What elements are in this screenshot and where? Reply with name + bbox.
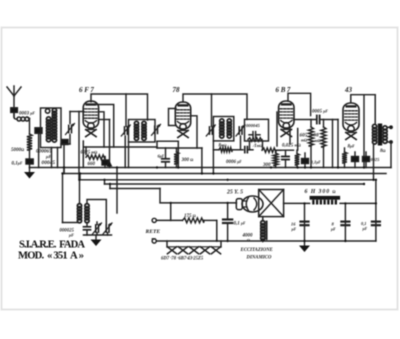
label 8uF filter — [330, 222, 336, 232]
svg-text:RETE: RETE — [145, 229, 161, 235]
wire T3 left leg — [212, 141, 214, 174]
terminal dot speaker+ — [387, 125, 393, 129]
wire C10 stem — [304, 153, 306, 168]
capacitor C1 0003uF antenna series cap — [11, 108, 18, 113]
terminal RETE b — [152, 239, 156, 243]
coil L1 antenna loading coil — [14, 112, 30, 121]
tube V2 78 IF amplifier — [175, 102, 190, 138]
wire screen feeder V4 — [363, 95, 365, 168]
label 98 — [314, 133, 321, 144]
svg-text:∕1mΩ: ∕1mΩ — [253, 143, 263, 149]
svg-text:0,1 μF: 0,1 μF — [234, 222, 246, 227]
label 16uF — [291, 222, 297, 232]
label 175ohm — [184, 214, 196, 219]
T2 primary winding — [134, 121, 138, 140]
wire det row — [213, 149, 243, 151]
ground filter — [299, 240, 310, 252]
T3 secondary winding — [227, 119, 231, 138]
svg-text:0,1: 0,1 — [361, 221, 367, 226]
svg-text:MOD. « 351 A »: MOD. « 351 A » — [18, 251, 84, 262]
svg-text:0025 mΩ: 0025 mΩ — [81, 151, 98, 156]
wire grid feeders 43 — [333, 120, 339, 168]
svg-text:ECCITAZIONE: ECCITAZIONE — [240, 248, 273, 253]
resistor R10 cathode 43 — [342, 148, 347, 168]
label 0,1uF V3 — [311, 160, 322, 165]
label 0025 mohm — [81, 151, 98, 156]
T1 secondary winding — [52, 108, 56, 142]
variable capacitor VC6 padder — [93, 222, 102, 235]
bus B+ line2 — [64, 168, 386, 174]
resistor R5 8mohm — [219, 148, 232, 152]
svg-text:16: 16 — [291, 222, 296, 227]
svg-text:Ω: Ω — [247, 239, 250, 243]
svg-text:μF: μF — [362, 227, 368, 231]
output transformer T4 core — [378, 124, 382, 146]
output transformer T4 primary — [373, 124, 377, 144]
label 1 mohm — [253, 143, 263, 149]
wire primary bottom to bus — [373, 145, 375, 180]
capacitor C19 avc — [282, 150, 289, 167]
label uF — [45, 154, 51, 159]
tube V3 6B7 detector-avc — [279, 101, 294, 137]
wire R11 to bottom bus — [204, 220, 218, 242]
wire RETE top loop — [170, 202, 172, 221]
capacitor C3 coupling to RF coil — [35, 128, 42, 134]
wire T2 left leg — [128, 142, 130, 168]
capacitor C8 det — [245, 147, 250, 153]
svg-text:0025: 0025 — [371, 157, 381, 162]
wire top cap bracket V3 — [288, 93, 311, 115]
svg-text:μF: μF — [45, 154, 51, 159]
ground oscillator — [91, 235, 102, 246]
svg-text:00045: 00045 — [42, 160, 56, 166]
wire secondary return — [390, 142, 392, 168]
label 0006 uF — [226, 160, 242, 165]
wire V1 aux exit — [99, 119, 110, 121]
choke L3 core bar — [310, 196, 341, 200]
oscillator coil L2 winding b — [85, 204, 89, 223]
svg-text:μF: μF — [291, 228, 297, 232]
box under V1 — [83, 120, 109, 168]
bus chassis ground — [30, 167, 392, 169]
label 5000ohm — [11, 147, 24, 153]
wire right leg down — [375, 179, 377, 241]
resistor R9 98 — [321, 120, 326, 168]
svg-text:43: 43 — [344, 86, 353, 94]
output transformer T4 secondary — [383, 126, 387, 143]
wire top cap bracket V4 — [351, 95, 375, 103]
svg-text:6μF: 6μF — [158, 154, 165, 159]
svg-text:6 H 300 Ω: 6 H 300 Ω — [305, 189, 336, 195]
svg-text:6 F 7: 6 F 7 — [79, 86, 94, 94]
label filament string — [161, 257, 204, 262]
label 00045 — [42, 160, 56, 166]
svg-text:25 Y. 5: 25 Y. 5 — [226, 190, 243, 196]
wire V1 left feeder — [78, 112, 80, 181]
svg-text:8μF: 8μF — [348, 145, 356, 150]
filament chain heaters — [167, 241, 221, 254]
bus line5 — [110, 184, 160, 189]
wire bus5 down to rectifier line — [160, 189, 237, 203]
label 0005 uF — [312, 110, 328, 115]
svg-text:0,1μF: 0,1μF — [12, 162, 23, 167]
wire R1 to C2 — [29, 150, 31, 159]
label 000065uF — [36, 149, 52, 155]
svg-text:5000Ω: 5000Ω — [11, 147, 24, 153]
wire cathode line y147 — [83, 146, 157, 148]
capacitor C16 8uF — [341, 202, 349, 242]
label tube V4 43 — [344, 86, 353, 94]
wire C2 to chassis — [29, 164, 31, 168]
wire antenna cap to coil — [13, 113, 15, 118]
wire field coil to bottom — [260, 239, 266, 243]
svg-text:0003 μF: 0003 μF — [19, 112, 35, 117]
wire T1 winding legs — [52, 148, 58, 168]
svg-text:0006 μF: 0006 μF — [226, 160, 242, 165]
capacitor C11 0005 coupling — [317, 116, 320, 124]
variable capacitor VC5 — [236, 125, 245, 136]
label 605 — [300, 133, 308, 143]
label 0003uF — [19, 112, 35, 117]
tube V4 43 power output — [343, 103, 359, 140]
capacitor C12 bypass — [352, 157, 359, 162]
label tube V2 78 — [173, 86, 181, 94]
wire cap stems 43 — [355, 152, 366, 168]
junction dots buses — [63, 166, 375, 185]
resistor R6 1mohm — [262, 148, 276, 152]
wire top cap bracket V1 — [91, 94, 148, 120]
wire V1 plate exit — [97, 105, 114, 148]
wire V2 plate exit — [191, 116, 198, 148]
svg-text:8: 8 — [332, 222, 335, 227]
title line 2 — [18, 251, 84, 262]
label 300 — [262, 163, 271, 168]
wire V1 screen exit — [99, 112, 105, 147]
wire bracket drop to VC2 — [125, 94, 127, 126]
capacitor C17 0,1uF — [372, 222, 380, 226]
label 660 — [88, 162, 96, 167]
capacitor C4 small — [62, 140, 69, 145]
wire coupling cap feeder — [38, 133, 40, 168]
title line 1 — [19, 240, 85, 251]
label tube V5 25Z5 — [226, 190, 243, 196]
label 300ohm — [181, 158, 194, 163]
wire osc left leg — [61, 172, 77, 222]
svg-text:mΩ: mΩ — [301, 138, 307, 143]
wire coupling line — [294, 119, 339, 121]
RF transformer T1 box — [41, 108, 62, 148]
wire feeder x117 — [116, 166, 118, 213]
resistor R3 300ohm — [174, 148, 179, 168]
resistor R2 660ohm cathode — [86, 155, 105, 159]
capacitor C15 16uF — [301, 202, 309, 241]
resistor R4 in box — [248, 138, 262, 142]
label 000045 — [246, 123, 260, 128]
svg-text:μF: μF — [330, 228, 336, 232]
label eccitazione dinamico — [240, 248, 273, 261]
svg-text:300 Ω: 300 Ω — [181, 158, 194, 163]
capacitor C18 0,1uF rectifier input — [223, 202, 232, 243]
wire node to R1 — [29, 119, 31, 135]
wire bracket drop to VC4 — [211, 94, 213, 126]
label tube V1 6F7 — [79, 86, 94, 94]
tube V5 25Z5 rectifier — [236, 196, 263, 212]
wire R2 ends — [86, 147, 105, 168]
bus bottom return — [156, 240, 376, 242]
wire det row right — [250, 149, 281, 151]
bus line4 — [105, 180, 366, 185]
capacitor C13 bypass — [363, 157, 370, 162]
wire VC1 bottom — [69, 135, 71, 145]
variable capacitor VC7 padder — [103, 223, 112, 235]
variable capacitor VC2 — [121, 125, 130, 136]
wire top cap bracket V2 — [183, 94, 247, 120]
capacitor C7 in box — [249, 132, 260, 138]
wire cathode line V2 — [157, 141, 202, 148]
label tube V3 6B7 — [276, 86, 291, 94]
wire VC1 to grid line — [70, 112, 84, 124]
label 0,1uF rect — [234, 222, 246, 227]
wire V3 cathode — [297, 129, 299, 151]
choke L3 winding — [312, 200, 337, 205]
resistor R12 avc — [295, 150, 300, 167]
label RETE — [145, 229, 161, 243]
svg-text:mΩ: mΩ — [315, 138, 321, 143]
svg-text:8Ω: 8Ω — [380, 149, 386, 154]
wire box to tube feeder — [61, 144, 70, 174]
svg-text:6D7 ·78 ·6B7·43·25Z5: 6D7 ·78 ·6B7·43·25Z5 — [161, 257, 204, 262]
label 0025 mohm V3 — [282, 143, 301, 149]
variable capacitor VC4 — [206, 125, 215, 136]
svg-text:0,1μF: 0,1μF — [311, 160, 322, 165]
label 0,1uF filter — [361, 221, 368, 231]
terminal dot speaker- — [387, 140, 393, 144]
wire VC2 stem — [124, 136, 126, 168]
tube V1 6F7 first detector — [83, 101, 98, 137]
label 0,1uF — [12, 162, 23, 167]
label 8 mohm — [219, 144, 227, 149]
variable capacitor VC1 tuning — [66, 123, 75, 134]
wire detector feeders — [250, 141, 263, 150]
capacitor C14 osc — [84, 223, 91, 236]
wire osc coil top right — [87, 200, 106, 226]
label 8 ohm — [380, 149, 386, 154]
T1 top curl — [45, 109, 49, 113]
wire det row extend — [276, 149, 294, 151]
oscillator coil L2 winding a — [77, 204, 81, 223]
ground antenna section — [24, 168, 35, 179]
field coil 4000ohm winding — [261, 217, 267, 240]
svg-text:0005 μF: 0005 μF — [312, 110, 328, 115]
svg-text:660: 660 — [88, 162, 96, 167]
antenna — [7, 86, 21, 108]
wire V2 plate feeder — [201, 148, 203, 174]
label choke 6H 300ohm — [305, 189, 336, 195]
capacitor C5 cathode bypass — [102, 160, 109, 165]
wire osc top leg — [78, 179, 80, 204]
svg-text:DINAMICO: DINAMICO — [246, 256, 272, 261]
T2 secondary winding — [142, 121, 146, 140]
detector box — [245, 119, 269, 141]
resistor R11 175ohm line cord — [183, 218, 204, 223]
label 4000ohm — [242, 234, 254, 243]
wire choke to right leg — [340, 202, 376, 204]
IF transformer T3 box — [213, 117, 233, 141]
wire osc bottom — [84, 234, 112, 236]
svg-text:000045: 000045 — [246, 123, 260, 128]
capacitor C10 0,1uF — [302, 159, 309, 164]
arrow junction cathode V1 — [107, 161, 113, 167]
svg-text:S.I.A.R.E. FADA: S.I.A.R.E. FADA — [19, 240, 85, 251]
label 8uF — [348, 145, 356, 150]
bus line3 — [80, 174, 376, 180]
wire speaker to choke — [284, 202, 310, 204]
wire terminal a to R11 — [156, 219, 182, 221]
T1 primary winding — [46, 117, 50, 142]
T3 primary winding — [220, 119, 224, 138]
resistor R7 300 volume — [273, 150, 278, 167]
resistor R1 5000ohm — [27, 134, 32, 150]
wire V2 grid frame — [169, 109, 177, 126]
wire T2 secondary to grid 78 — [157, 141, 178, 167]
wire V3 left leg — [277, 112, 290, 146]
capacitor C6 6uF cathode — [162, 148, 169, 168]
svg-text:μF: μF — [68, 233, 74, 238]
resistor R8 605 — [309, 120, 314, 168]
wire plate to output transformer — [374, 95, 376, 124]
IF transformer T2 box — [129, 120, 156, 143]
speaker box with X — [259, 190, 284, 217]
label 000025 — [60, 229, 75, 238]
capacitor C2 0,1uF — [26, 159, 33, 164]
label 0025 C13 — [371, 157, 381, 162]
label 6uF — [158, 154, 165, 159]
terminal RETE a — [152, 218, 156, 222]
variable capacitor VC3 — [152, 124, 161, 135]
wire VC5 stem — [240, 136, 242, 150]
svg-text:78: 78 — [173, 86, 181, 94]
